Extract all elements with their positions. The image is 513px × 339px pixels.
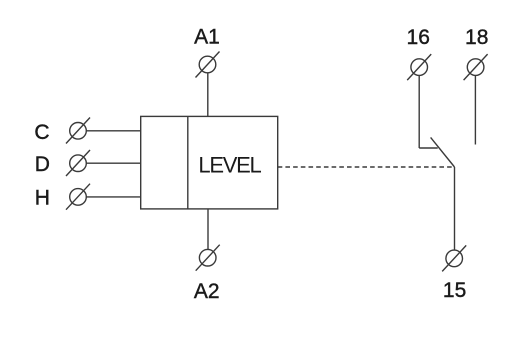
device box U1: [141, 116, 278, 208]
box divider: [187, 116, 189, 208]
wire box to A2: [207, 209, 209, 249]
svg-text:C: C: [34, 121, 49, 144]
dashed actuator link: [278, 166, 453, 168]
wire 18 down open: [474, 76, 476, 145]
terminal H: [66, 184, 90, 210]
terminal A1: [196, 52, 220, 78]
svg-text:A1: A1: [194, 26, 220, 49]
wire D to box: [87, 162, 141, 164]
wire 16 down: [418, 76, 420, 148]
svg-text:H: H: [35, 187, 50, 210]
fixed contact stub: [419, 147, 438, 149]
terminal 16: [407, 54, 431, 80]
wire common to 15: [454, 167, 456, 250]
wire H to box: [87, 196, 141, 198]
svg-text:18: 18: [465, 26, 488, 49]
terminal 15: [442, 245, 466, 271]
svg-text:D: D: [35, 153, 50, 176]
wire C to box: [87, 130, 141, 132]
svg-text:LEVEL: LEVEL: [198, 153, 261, 178]
svg-text:A2: A2: [194, 280, 220, 303]
wire A1 to box: [207, 73, 209, 116]
terminal A2: [196, 245, 220, 271]
switch arm: [431, 137, 455, 167]
terminal C: [66, 118, 90, 144]
svg-text:15: 15: [443, 279, 466, 302]
terminal 18: [464, 54, 488, 80]
terminal D: [66, 150, 90, 176]
svg-text:16: 16: [407, 26, 430, 49]
